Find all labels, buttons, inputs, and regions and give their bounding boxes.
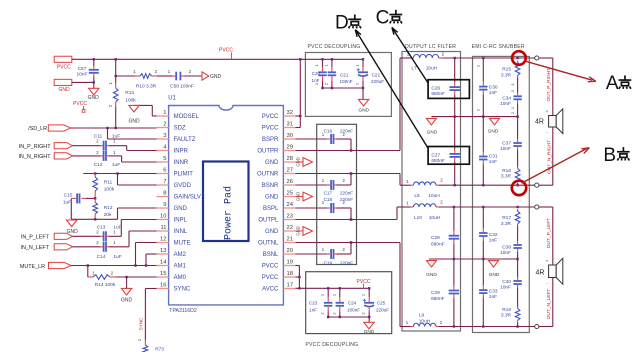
svg-text:22: 22 bbox=[287, 225, 293, 231]
svg-text:C32: C32 bbox=[489, 232, 498, 238]
svg-text:SYNC: SYNC bbox=[174, 287, 191, 293]
svg-text:PLIMIT: PLIMIT bbox=[174, 172, 194, 178]
svg-text:10uH: 10uH bbox=[426, 65, 438, 71]
svg-text:IN_P_RIGHT: IN_P_RIGHT bbox=[19, 144, 51, 150]
svg-text:1: 1 bbox=[476, 65, 481, 67]
svg-text:1: 1 bbox=[331, 294, 336, 296]
svg-text:2: 2 bbox=[314, 83, 319, 85]
svg-text:1uF: 1uF bbox=[63, 199, 71, 205]
svg-text:A: A bbox=[606, 73, 619, 94]
svg-text:AM1: AM1 bbox=[174, 264, 187, 270]
svg-text:1: 1 bbox=[510, 83, 515, 85]
svg-text:GND: GND bbox=[296, 192, 301, 201]
svg-text:R18: R18 bbox=[502, 307, 511, 313]
svg-text:OUTPR: OUTPR bbox=[257, 149, 279, 155]
svg-text:GND: GND bbox=[265, 229, 279, 235]
svg-text:10nF: 10nF bbox=[500, 146, 511, 152]
svg-text:100nF: 100nF bbox=[347, 307, 360, 312]
svg-text:GND: GND bbox=[210, 74, 222, 80]
svg-text:220uF: 220uF bbox=[371, 79, 384, 84]
svg-text:PVCC: PVCC bbox=[262, 126, 279, 132]
svg-text:C24: C24 bbox=[348, 301, 357, 306]
svg-text:GND: GND bbox=[358, 107, 369, 113]
svg-text:INPL: INPL bbox=[174, 218, 188, 224]
svg-text:OUTNL: OUTNL bbox=[258, 241, 279, 247]
svg-text:L10: L10 bbox=[414, 215, 422, 221]
svg-text:GAIN/SLV: GAIN/SLV bbox=[174, 195, 201, 201]
svg-text:GND: GND bbox=[296, 226, 301, 235]
svg-text:14: 14 bbox=[160, 260, 167, 266]
svg-text:12: 12 bbox=[160, 237, 166, 243]
svg-text:1uF: 1uF bbox=[112, 162, 120, 168]
svg-text:B: B bbox=[603, 145, 616, 166]
svg-text:10uH: 10uH bbox=[428, 193, 440, 199]
svg-text:C30: C30 bbox=[489, 84, 498, 90]
svg-text:10: 10 bbox=[160, 214, 166, 220]
svg-text:C27: C27 bbox=[431, 152, 440, 158]
svg-text:GND: GND bbox=[488, 129, 499, 135]
svg-text:11: 11 bbox=[160, 225, 166, 231]
svg-text:C57: C57 bbox=[78, 66, 87, 72]
svg-text:4R: 4R bbox=[536, 269, 545, 276]
svg-text:C16: C16 bbox=[324, 129, 333, 134]
svg-text:1: 1 bbox=[354, 64, 359, 66]
svg-text:R14 100k: R14 100k bbox=[95, 282, 116, 288]
svg-text:10uH: 10uH bbox=[429, 215, 441, 221]
svg-text:220nF: 220nF bbox=[340, 261, 353, 266]
svg-text:OUTPL: OUTPL bbox=[258, 218, 279, 224]
svg-text:R17: R17 bbox=[502, 215, 511, 221]
svg-text:27: 27 bbox=[287, 168, 293, 174]
svg-text:MODSEL: MODSEL bbox=[174, 114, 200, 120]
svg-text:7: 7 bbox=[163, 179, 166, 185]
svg-text:1uF: 1uF bbox=[113, 254, 121, 260]
svg-text:GND: GND bbox=[265, 195, 279, 201]
svg-text:10nF: 10nF bbox=[500, 250, 511, 256]
svg-text:U1: U1 bbox=[168, 95, 176, 101]
svg-text:BSPL: BSPL bbox=[263, 206, 279, 212]
svg-text:GND: GND bbox=[128, 119, 140, 125]
svg-text:20: 20 bbox=[287, 248, 293, 254]
svg-text:INNL: INNL bbox=[174, 229, 188, 235]
svg-text:PVCC: PVCC bbox=[219, 47, 233, 53]
svg-text:C21: C21 bbox=[340, 73, 349, 78]
svg-text:26: 26 bbox=[287, 179, 293, 185]
svg-text:L7: L7 bbox=[411, 65, 417, 71]
svg-text:D: D bbox=[335, 12, 349, 33]
svg-text:1: 1 bbox=[323, 64, 328, 66]
svg-text:INNR: INNR bbox=[174, 160, 189, 166]
svg-text:2: 2 bbox=[476, 109, 481, 111]
svg-text:6: 6 bbox=[163, 168, 166, 174]
svg-text:SDZ: SDZ bbox=[174, 126, 186, 132]
svg-text:GVDD: GVDD bbox=[174, 183, 192, 189]
svg-text:C18: C18 bbox=[324, 197, 333, 202]
svg-text:24: 24 bbox=[287, 202, 294, 208]
svg-text:1: 1 bbox=[163, 110, 166, 116]
svg-text:220nF: 220nF bbox=[340, 197, 353, 202]
svg-text:1nF: 1nF bbox=[489, 237, 497, 243]
svg-text:GND: GND bbox=[427, 129, 438, 135]
svg-text:2: 2 bbox=[510, 112, 515, 114]
svg-text:C14: C14 bbox=[97, 254, 106, 260]
svg-text:4R: 4R bbox=[535, 119, 544, 126]
svg-text:C22: C22 bbox=[372, 73, 381, 78]
svg-text:1: 1 bbox=[510, 107, 515, 109]
svg-text:C33: C33 bbox=[489, 289, 498, 295]
svg-text:680nF: 680nF bbox=[431, 296, 445, 302]
svg-text:OUTNR: OUTNR bbox=[257, 172, 279, 178]
svg-text:2: 2 bbox=[354, 83, 359, 85]
svg-text:R12: R12 bbox=[104, 205, 113, 211]
svg-text:PVCC: PVCC bbox=[262, 275, 279, 281]
svg-text:C38: C38 bbox=[502, 244, 511, 250]
svg-text:17: 17 bbox=[287, 283, 293, 289]
svg-text:10nF: 10nF bbox=[500, 285, 511, 291]
svg-text:28: 28 bbox=[287, 156, 293, 162]
svg-text:8: 8 bbox=[163, 191, 166, 197]
svg-text:C34: C34 bbox=[502, 96, 511, 102]
svg-text:2: 2 bbox=[323, 83, 328, 85]
svg-text:GND: GND bbox=[174, 206, 188, 212]
svg-text:1nF: 1nF bbox=[312, 78, 320, 83]
svg-text:19: 19 bbox=[287, 260, 293, 266]
svg-text:1: 1 bbox=[361, 294, 366, 296]
svg-text:3: 3 bbox=[163, 133, 166, 139]
svg-text:3.3R: 3.3R bbox=[501, 174, 512, 180]
svg-text:10uH: 10uH bbox=[419, 318, 431, 324]
svg-text:C58 100nF: C58 100nF bbox=[170, 84, 194, 90]
svg-text:AVCC: AVCC bbox=[262, 287, 279, 293]
svg-text:OUT_P_RIGHT: OUT_P_RIGHT bbox=[546, 68, 552, 102]
svg-text:R11: R11 bbox=[104, 179, 113, 185]
svg-text:C17: C17 bbox=[324, 191, 333, 196]
svg-text:680nF: 680nF bbox=[431, 91, 445, 97]
svg-text:TPA3116D2: TPA3116D2 bbox=[169, 308, 197, 314]
svg-text:20k: 20k bbox=[104, 212, 112, 218]
svg-text:C20: C20 bbox=[312, 71, 321, 76]
svg-text:R15: R15 bbox=[502, 67, 511, 73]
svg-text:32: 32 bbox=[287, 110, 293, 116]
svg-text:SYNC: SYNC bbox=[138, 317, 143, 330]
svg-text:BSPR: BSPR bbox=[262, 137, 279, 143]
svg-text:R16: R16 bbox=[502, 168, 511, 174]
svg-text:FAULTZ: FAULTZ bbox=[174, 137, 196, 143]
svg-text:3.3R: 3.3R bbox=[501, 72, 512, 78]
svg-text:L9: L9 bbox=[419, 312, 425, 318]
svg-text:1nF: 1nF bbox=[309, 307, 317, 312]
svg-text:+: + bbox=[546, 109, 549, 114]
svg-text:PVCC DECOUPLING: PVCC DECOUPLING bbox=[305, 342, 358, 348]
svg-text:13: 13 bbox=[160, 248, 166, 254]
svg-text:9: 9 bbox=[163, 202, 166, 208]
svg-text:PVCC: PVCC bbox=[262, 264, 279, 270]
svg-text:AM2: AM2 bbox=[174, 252, 187, 258]
svg-text:PVCC: PVCC bbox=[57, 64, 71, 70]
svg-text:C25: C25 bbox=[377, 301, 386, 306]
svg-text:IN_N_LEFT: IN_N_LEFT bbox=[21, 245, 50, 251]
svg-text:C19: C19 bbox=[324, 261, 333, 266]
svg-text:18: 18 bbox=[287, 271, 293, 277]
svg-text:220uF: 220uF bbox=[376, 307, 389, 312]
svg-text:GND: GND bbox=[265, 160, 279, 166]
svg-text:GND: GND bbox=[489, 272, 500, 278]
svg-text:MUTE_LR: MUTE_LR bbox=[20, 264, 45, 270]
svg-text:1nF: 1nF bbox=[489, 90, 497, 96]
svg-text:C31: C31 bbox=[489, 154, 498, 160]
svg-text:100nF: 100nF bbox=[339, 79, 352, 84]
svg-text:21: 21 bbox=[287, 237, 293, 243]
svg-text:680nF: 680nF bbox=[431, 241, 445, 247]
svg-text:MUTE: MUTE bbox=[174, 241, 191, 247]
svg-text:+: + bbox=[546, 259, 549, 264]
svg-text:C26: C26 bbox=[431, 85, 440, 91]
svg-text:220nF: 220nF bbox=[340, 129, 353, 134]
svg-text:BSNR: BSNR bbox=[262, 183, 279, 189]
svg-text:INPR: INPR bbox=[174, 149, 189, 155]
svg-text:C28: C28 bbox=[431, 235, 440, 241]
svg-text:PVCC: PVCC bbox=[262, 114, 279, 120]
svg-text:GND: GND bbox=[121, 297, 133, 303]
svg-text:10nF: 10nF bbox=[77, 71, 88, 77]
svg-text:15: 15 bbox=[160, 271, 166, 277]
svg-text:5: 5 bbox=[163, 156, 166, 162]
svg-text:GND: GND bbox=[88, 95, 100, 101]
svg-text:GND: GND bbox=[296, 157, 301, 166]
svg-text:GND: GND bbox=[58, 87, 70, 93]
svg-text:C37: C37 bbox=[502, 140, 511, 146]
svg-text:23: 23 bbox=[287, 214, 293, 220]
svg-text:C12: C12 bbox=[94, 162, 103, 168]
svg-text:AM0: AM0 bbox=[174, 275, 187, 281]
svg-text:100k: 100k bbox=[125, 97, 136, 103]
svg-text:R13: R13 bbox=[125, 90, 134, 96]
svg-text:2: 2 bbox=[331, 312, 336, 314]
svg-text:C15: C15 bbox=[64, 193, 73, 199]
svg-text:/SD_LR: /SD_LR bbox=[28, 126, 47, 132]
svg-text:2: 2 bbox=[320, 312, 325, 314]
svg-text:R10 3.3R: R10 3.3R bbox=[136, 84, 157, 90]
svg-text:BSNL: BSNL bbox=[263, 252, 279, 258]
svg-text:IN_N_RIGHT: IN_N_RIGHT bbox=[18, 154, 51, 160]
svg-text:3.3R: 3.3R bbox=[501, 221, 512, 227]
svg-text:C23: C23 bbox=[309, 301, 318, 306]
svg-text:R73: R73 bbox=[155, 346, 164, 352]
svg-text:PVCC DECOUPLING: PVCC DECOUPLING bbox=[308, 44, 361, 50]
svg-text:Power Pad: Power Pad bbox=[223, 186, 235, 240]
svg-text:2: 2 bbox=[510, 90, 515, 92]
svg-text:31: 31 bbox=[287, 122, 293, 128]
svg-text:29: 29 bbox=[287, 145, 293, 151]
svg-text:2: 2 bbox=[361, 312, 366, 314]
svg-text:1: 1 bbox=[320, 294, 325, 296]
svg-text:1nF: 1nF bbox=[489, 159, 497, 165]
svg-text:16: 16 bbox=[160, 283, 166, 289]
svg-text:C29: C29 bbox=[431, 290, 440, 296]
svg-text:L8: L8 bbox=[414, 193, 420, 199]
svg-text:1: 1 bbox=[314, 64, 319, 66]
svg-text:OUT_N_LEFT: OUT_N_LEFT bbox=[546, 289, 552, 320]
svg-text:PVCC: PVCC bbox=[73, 101, 87, 107]
svg-text:10nF: 10nF bbox=[500, 101, 511, 107]
svg-text:GND: GND bbox=[426, 272, 437, 278]
svg-text:IN_P_LEFT: IN_P_LEFT bbox=[21, 235, 50, 241]
svg-text:100k: 100k bbox=[104, 186, 115, 192]
svg-text:3.3R: 3.3R bbox=[501, 313, 512, 319]
svg-text:C: C bbox=[376, 8, 390, 29]
svg-text:EMI C-RC SNUBBER: EMI C-RC SNUBBER bbox=[472, 44, 525, 50]
svg-text:OUT_P_LEFT: OUT_P_LEFT bbox=[546, 218, 552, 248]
svg-text:30: 30 bbox=[287, 133, 293, 139]
svg-text:25: 25 bbox=[287, 191, 293, 197]
svg-text:C40: C40 bbox=[502, 279, 511, 285]
svg-text:220nF: 220nF bbox=[340, 191, 353, 196]
svg-text:1nF: 1nF bbox=[489, 294, 497, 300]
svg-text:2: 2 bbox=[163, 122, 166, 128]
svg-text:GND: GND bbox=[364, 329, 375, 335]
svg-text:680nF: 680nF bbox=[431, 158, 445, 164]
svg-text:OUTPUT LC FILTER: OUTPUT LC FILTER bbox=[405, 44, 456, 50]
